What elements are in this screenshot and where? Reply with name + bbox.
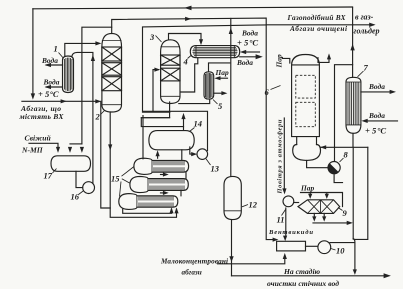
svg-text:°С: °С [50, 89, 59, 99]
wire adsorber 6 offgas vent [318, 58, 329, 63]
wire column2 overhead riser and line B [112, 18, 274, 240]
svg-text:Вода: Вода [241, 29, 258, 38]
heat exchanger bank 15 unit B [130, 176, 188, 192]
wire main riser from drum 12 to line B [230, 19, 232, 177]
svg-text:Свіжий: Свіжий [25, 133, 51, 142]
svg-text:+ 5: + 5 [237, 37, 249, 47]
drum 14 reflux accumulator [149, 131, 194, 150]
wire air intake to blower 11 [283, 118, 285, 189]
svg-text:11: 11 [277, 215, 285, 225]
drum 17 fresh solvent vessel [51, 156, 91, 172]
wire feed line Abgazy [22, 100, 96, 102]
svg-text:17: 17 [44, 171, 53, 181]
wire reboiler liquid line to column 3 bottom [179, 99, 210, 103]
wire column2 bottoms to exchanger bank [110, 112, 176, 217]
wire column 3 bottoms staircase [141, 102, 183, 130]
svg-text:Повітря з атмосфери: Повітря з атмосфери [276, 119, 283, 194]
wire top recycle line A [33, 7, 353, 9]
wire reflux return HX4 to column 3 [180, 58, 198, 92]
wire to vent box [218, 259, 285, 264]
svg-text:10: 10 [336, 246, 345, 256]
pump 16 [83, 182, 95, 194]
wire bank A to drum 14 [157, 155, 159, 158]
svg-text:+ 5: + 5 [38, 89, 50, 99]
wire drum 12 bottoms with valve junction [231, 220, 233, 276]
svg-text:Пар: Пар [215, 68, 229, 77]
wire left drop from line A to feed [32, 9, 34, 95]
svg-text:15: 15 [111, 174, 120, 184]
svg-text:Вода: Вода [43, 78, 60, 87]
svg-text:Абгази очищені: Абгази очищені [289, 24, 347, 33]
svg-text:16: 16 [71, 192, 80, 202]
svg-text:12: 12 [249, 200, 258, 210]
wire pump16 riser through cooler loop [72, 52, 93, 183]
wire cooling water out of HX4 [240, 56, 256, 58]
wire pump 8 suction from manifold [334, 147, 336, 161]
svg-text:°С: °С [377, 126, 386, 136]
svg-text:Вода: Вода [41, 56, 58, 65]
heat exchanger 1 tubes hatch [64, 58, 72, 91]
wire to waste water treatment [232, 275, 388, 277]
adsorber 6 shell [292, 55, 321, 161]
wire HX5 vapor to riser [209, 63, 230, 72]
column 3 packing X sections [161, 55, 180, 81]
pump 13 [197, 149, 208, 160]
svg-text:очистки стічних вод: очистки стічних вод [267, 279, 339, 288]
wire HX1 outlet to column 2 top [65, 43, 96, 56]
pump 10 [318, 241, 331, 254]
wire water out HX1 top [46, 64, 62, 66]
svg-text:1: 1 [54, 44, 58, 54]
wire heater 9 condensate drops [314, 213, 324, 216]
wire column 3 overhead to condenser 4 [169, 34, 202, 40]
svg-text:Вентвикиди: Вентвикиди [268, 229, 313, 236]
svg-text:На стадію: На стадію [283, 267, 321, 276]
svg-text:Газоподібний ВХ: Газоподібний ВХ [287, 13, 347, 22]
wire drum 14 to pump 13 [190, 147, 191, 154]
column 2 packing X sections [102, 47, 122, 91]
wire vent box to pump 10 [306, 245, 318, 247]
wire fresh N-MP feed [29, 143, 58, 146]
wire blower 11 to vent box [285, 208, 287, 236]
svg-text:3: 3 [149, 32, 155, 42]
heat exchanger 5 evaporator shell [204, 72, 214, 99]
wire feed-side line P3 [101, 101, 110, 208]
wire water out of HX7 [361, 91, 390, 93]
svg-text:14: 14 [194, 119, 203, 129]
svg-text:Малоконцентровані: Малоконцентровані [160, 257, 228, 266]
pump 11 air blower [283, 196, 294, 207]
wire bank side connections [143, 116, 186, 196]
svg-text:Вода: Вода [368, 111, 385, 120]
wire branch from riser to adsorber bottom [335, 65, 353, 148]
svg-text:Вода: Вода [368, 82, 385, 91]
svg-text:гольдер: гольдер [354, 27, 380, 36]
svg-text:Пар: Пар [300, 184, 314, 193]
wire feed riser into column 3 [143, 70, 170, 113]
wire HX7 bottom manifold [321, 133, 368, 147]
wire HX5 side outlet to riser [214, 92, 222, 94]
svg-text:Пар: Пар [275, 54, 284, 68]
wire staircase into bank A [141, 117, 169, 119]
wire riser from adsorber block to junction [352, 8, 354, 78]
vessel 12 knockout drum [224, 176, 241, 219]
wire pump 8 discharge to heater 9 [334, 174, 342, 183]
svg-text:N-МП: N-МП [21, 145, 44, 154]
wire pump 10 discharge [330, 242, 354, 244]
wire gasholder exit [353, 24, 374, 26]
column 2 shell [102, 33, 122, 112]
wire twin downcomers to waste water line [353, 147, 368, 239]
svg-text:абгази: абгази [182, 268, 202, 276]
svg-text:містять ВХ: містять ВХ [19, 112, 65, 121]
svg-text:+ 5: + 5 [365, 126, 377, 136]
wire water into HX7 [368, 120, 398, 122]
svg-text:4: 4 [183, 57, 188, 67]
heat exchanger 4 condenser [190, 46, 239, 58]
wire inter-exchanger arrows [161, 174, 165, 176]
svg-text:в газ-: в газ- [355, 13, 374, 22]
heater 9 [298, 200, 340, 214]
wire blower 11 to heater 9 [294, 202, 299, 204]
svg-text:2: 2 [95, 112, 101, 122]
enclosure box around desorption section [143, 25, 267, 151]
wire bank C lower loop [123, 209, 172, 213]
column 3 shell [161, 40, 180, 104]
heat exchanger 7 shell [346, 77, 361, 133]
heat exchanger 1 shell [63, 56, 74, 93]
vent box [277, 241, 306, 251]
svg-text:Вода: Вода [236, 58, 253, 67]
wire adsorber 6 bottoms to pump 8 [307, 160, 328, 167]
wire drum 17 to pump 16 [76, 171, 83, 187]
wire water in HX1 bottom [46, 86, 62, 88]
svg-text:°С: °С [249, 37, 258, 47]
heat exchanger bank 15 unit A [134, 158, 189, 174]
wire branch y27 from riser of column2 down to drum 17 [82, 27, 112, 144]
svg-text:13: 13 [211, 164, 220, 174]
wire column 3 side feed arrow into packing gap [155, 69, 158, 71]
heat exchanger bank 15 unit C [119, 194, 178, 210]
pump 8 [328, 162, 340, 174]
